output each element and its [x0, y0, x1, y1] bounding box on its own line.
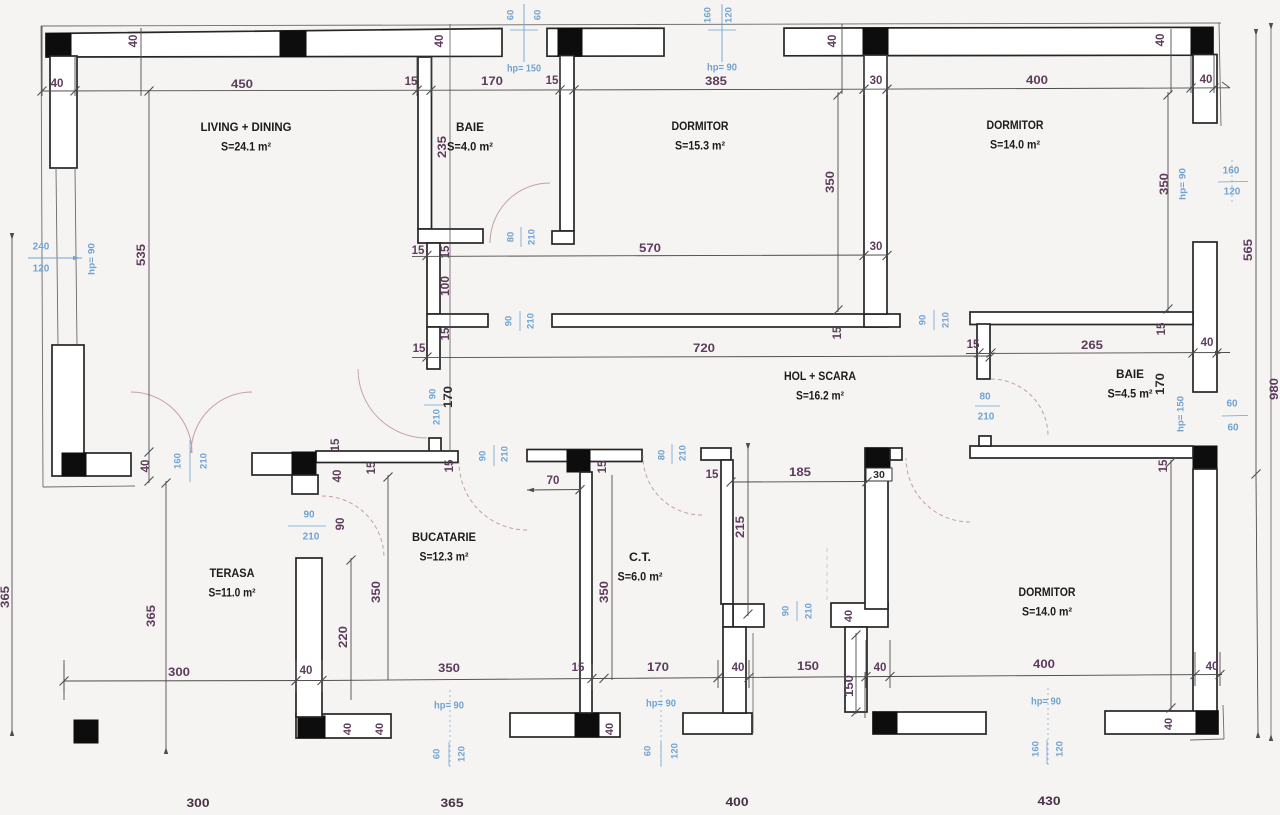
svg-text:15: 15 [967, 339, 980, 351]
dormitor top door dim (90/210) [933, 310, 935, 330]
svg-text:40: 40 [434, 35, 446, 48]
svg-text:80: 80 [506, 232, 517, 243]
svg-text:hp= 150: hp= 150 [507, 64, 541, 75]
svg-text:565: 565 [1243, 238, 1255, 261]
svg-text:365: 365 [441, 796, 464, 810]
baie45 door dim (80/210) [975, 405, 1000, 407]
svg-text:90: 90 [918, 315, 929, 326]
door arc dormitor-b [906, 458, 970, 522]
svg-text:40: 40 [300, 665, 313, 677]
baie45 window dim (60/60 hp150) [1222, 415, 1248, 418]
ct west wall lower [723, 627, 746, 713]
svg-text:15: 15 [413, 343, 426, 355]
door arc kitchen west [322, 496, 384, 558]
svg-text:LIVING + DINING: LIVING + DINING [201, 120, 292, 134]
svg-text:hp= 90: hp= 90 [1178, 168, 1189, 200]
column top wall x570 [558, 28, 582, 56]
svg-text:40: 40 [874, 662, 887, 674]
bottom wall ct piece [683, 713, 752, 734]
svg-text:240: 240 [33, 242, 50, 253]
svg-text:400: 400 [1033, 659, 1055, 671]
svg-text:S=16.2 m²: S=16.2 m² [796, 391, 844, 403]
svg-text:S=24.1 m²: S=24.1 m² [221, 142, 271, 154]
svg-text:DORMITOR: DORMITOR [672, 119, 729, 133]
baie45 west jamb stub [977, 324, 990, 379]
vertical dim 365 right lower [1256, 476, 1258, 733]
svg-text:120: 120 [1055, 741, 1066, 757]
kitchen door dim (90/210) [493, 445, 495, 466]
svg-text:210: 210 [527, 229, 538, 245]
svg-text:S=4.5 m²: S=4.5 m² [1108, 389, 1153, 401]
baie4 east wall south stub [552, 231, 574, 244]
column top-left corner [46, 34, 71, 58]
door arc baie45 [991, 379, 1048, 436]
svg-text:300: 300 [168, 667, 190, 679]
column right wall baie corner [1193, 446, 1217, 469]
svg-text:15: 15 [440, 327, 452, 340]
kitchen east wall [580, 472, 592, 713]
vertical dim 365 left outer [11, 238, 13, 731]
terasa kitchen door dim (90/210) [288, 525, 326, 527]
svg-text:40: 40 [342, 723, 354, 735]
ct west wall jog band [733, 604, 764, 627]
svg-text:40: 40 [732, 662, 745, 674]
svg-text:170: 170 [1155, 373, 1167, 395]
building outline contour bottom-right corner [1190, 739, 1224, 740]
vertical dim 980 far right [1270, 28, 1272, 736]
svg-text:HOL + SCARA: HOL + SCARA [784, 369, 856, 383]
svg-text:210: 210 [804, 603, 815, 619]
building outline contour left-bottom [43, 486, 135, 487]
svg-text:hp= 90: hp= 90 [1031, 697, 1061, 708]
exterior left wall upper segment [50, 56, 77, 168]
svg-text:15: 15 [330, 438, 342, 451]
svg-text:120: 120 [457, 746, 468, 762]
column top wall x290 [280, 31, 306, 57]
svg-text:570: 570 [639, 243, 661, 255]
svg-text:450: 450 [231, 79, 253, 91]
living east wall lower piece [427, 327, 440, 369]
svg-text:350: 350 [1159, 173, 1171, 195]
svg-text:40: 40 [843, 610, 855, 622]
svg-text:365: 365 [146, 604, 158, 627]
svg-text:90: 90 [335, 518, 347, 531]
door arc terasa french right [191, 392, 252, 453]
svg-text:DORMITOR: DORMITOR [987, 118, 1044, 132]
bottom wall kitchen piece [510, 713, 620, 737]
svg-text:30: 30 [873, 469, 885, 481]
svg-text:150: 150 [797, 661, 819, 673]
bottom wall right piece [1105, 711, 1218, 734]
vertical dim 350 dormitor right [1167, 92, 1169, 311]
svg-text:210: 210 [432, 409, 443, 425]
svg-text:hp= 90: hp= 90 [434, 701, 464, 712]
vertical dim 350 dormitor-b [1170, 460, 1172, 710]
dormitor-b north wall jamb notch [979, 436, 991, 446]
svg-text:215: 215 [735, 515, 747, 538]
svg-text:60: 60 [506, 10, 517, 21]
svg-text:980: 980 [1269, 378, 1280, 400]
svg-text:15: 15 [366, 461, 378, 474]
svg-text:BUCATARIE: BUCATARIE [412, 530, 476, 544]
bottom wall entrance-dormitor piece [873, 712, 986, 734]
vertical dim 565 right [1255, 34, 1257, 476]
door arc terasa french left [131, 392, 192, 453]
hall east wall white stub [890, 448, 902, 460]
svg-text:90: 90 [428, 389, 439, 400]
svg-text:15: 15 [706, 469, 719, 481]
svg-text:160: 160 [1031, 741, 1042, 757]
svg-text:80: 80 [979, 392, 991, 403]
exterior left wall bottom stub east [84, 453, 131, 476]
svg-text:40: 40 [51, 78, 64, 90]
svg-text:120: 120 [670, 743, 681, 759]
svg-text:40: 40 [827, 35, 839, 48]
svg-text:90: 90 [303, 510, 315, 521]
top dim extension verticals [140, 28, 142, 96]
svg-text:40: 40 [1155, 34, 1167, 47]
svg-text:15: 15 [440, 245, 452, 258]
living east door dim (90/210) [424, 404, 444, 406]
window dim left living (240/120 hp90) [28, 257, 82, 259]
bottom wall terasa piece [296, 714, 391, 738]
svg-text:40: 40 [332, 470, 344, 483]
svg-text:210: 210 [199, 453, 210, 469]
corridor south wall west stub [427, 314, 488, 327]
ct door dim (80/210) [671, 444, 673, 464]
kitchen north wall east piece [527, 450, 642, 462]
svg-text:385: 385 [705, 76, 728, 88]
dim 70 line [527, 489, 580, 492]
building outline contour right top [1219, 23, 1221, 126]
exterior right wall segment below corner [1193, 55, 1217, 124]
svg-text:15: 15 [597, 460, 609, 473]
svg-text:15: 15 [1156, 322, 1168, 335]
column bottom terasa wall [298, 716, 325, 738]
svg-text:160: 160 [173, 453, 184, 469]
kitchen north wall [316, 451, 458, 463]
vertical dim 150 hall east [855, 633, 857, 714]
svg-text:30: 30 [870, 241, 883, 253]
baie4 south wall with door jamb [418, 229, 483, 243]
svg-text:S=15.3 m²: S=15.3 m² [675, 141, 725, 153]
dim 185 line [731, 481, 867, 484]
svg-text:15: 15 [444, 459, 456, 472]
building outline contour left [41, 26, 43, 487]
hall east wall lower piece [845, 627, 867, 712]
svg-text:210: 210 [678, 445, 689, 461]
svg-text:S=4.0 m²: S=4.0 m² [447, 142, 493, 154]
door arc baie4 [490, 183, 550, 243]
svg-text:40: 40 [374, 723, 386, 735]
svg-text:90: 90 [781, 606, 792, 617]
svg-text:40: 40 [604, 723, 616, 735]
baie4 east wall (dormitor west) [560, 56, 574, 232]
wall dormitor divider 30cm [864, 55, 887, 314]
svg-text:hp= 90: hp= 90 [87, 243, 98, 275]
ct west wall upper [721, 460, 733, 604]
svg-text:90: 90 [478, 451, 489, 462]
svg-text:40: 40 [128, 35, 140, 48]
svg-text:hp= 150: hp= 150 [1176, 396, 1187, 432]
entrance door dim (90/210) [796, 601, 798, 621]
vertical dim 215 [747, 448, 749, 616]
svg-text:210: 210 [978, 412, 995, 423]
svg-text:15: 15 [1158, 459, 1170, 472]
svg-text:535: 535 [136, 243, 148, 266]
dormitor-b north wall [970, 446, 1193, 458]
svg-text:150: 150 [844, 675, 856, 697]
svg-text:210: 210 [303, 532, 320, 543]
vertical dim 350 kitchen east [611, 475, 613, 680]
column kitchen north-east [567, 450, 590, 472]
dim 570 line [412, 255, 887, 256]
column top wall x875 [863, 28, 888, 56]
window dim top baie (60/60 hp150) [523, 4, 525, 62]
corridor door dim (90/210) [519, 311, 521, 331]
dormitor-b window dim (160/120 hp90) [1047, 688, 1049, 766]
svg-text:15: 15 [572, 662, 585, 674]
ct west wall joint piece [723, 604, 733, 627]
column terasa south-west isolated [74, 720, 98, 743]
hall east 30cm wall [865, 448, 888, 609]
svg-text:40: 40 [1200, 74, 1213, 86]
svg-text:80: 80 [657, 450, 668, 461]
vertical dim 350 dormitor west [837, 92, 839, 312]
svg-text:100: 100 [440, 276, 452, 296]
svg-text:170: 170 [647, 662, 669, 674]
svg-text:60: 60 [1227, 423, 1239, 434]
svg-text:TERASA: TERASA [210, 566, 255, 580]
baie45 north wall [970, 312, 1193, 325]
svg-text:40: 40 [140, 460, 152, 473]
bottom dim extension verticals [63, 665, 65, 692]
window dim top dormitor (160/120 hp90) [721, 4, 723, 62]
corridor south wall east end stub [864, 314, 900, 327]
living east wall door jamb stub [429, 438, 441, 452]
exterior top wall segment B (baie window to dormitor) [547, 28, 664, 56]
top dimension line [42, 89, 446, 92]
kitchen west wall upper step [292, 475, 318, 494]
column top-right corner [1191, 27, 1213, 55]
column bottom entrance [873, 712, 897, 734]
svg-text:120: 120 [724, 7, 735, 23]
svg-text:210: 210 [500, 446, 511, 462]
corridor south wall long piece [552, 314, 888, 327]
dim line baie45 row [966, 353, 1230, 354]
svg-text:300: 300 [187, 796, 210, 810]
vertical dim 220 terasa wall [350, 558, 352, 700]
svg-text:70: 70 [547, 475, 560, 487]
door arc living east [358, 369, 427, 438]
svg-text:400: 400 [1026, 75, 1048, 87]
svg-text:S=12.3 m²: S=12.3 m² [420, 552, 469, 564]
svg-text:430: 430 [1038, 794, 1061, 808]
column bottom kitchen wall [575, 713, 599, 737]
svg-text:S=6.0 m²: S=6.0 m² [618, 572, 663, 584]
corridor west wall [427, 243, 440, 314]
exterior right wall lower segment [1193, 469, 1217, 712]
exterior left wall lower segment [52, 345, 84, 476]
svg-text:365: 365 [0, 585, 12, 608]
exterior top wall segment A (living) [46, 29, 502, 58]
kitchen window dim (60/120 hp90) [449, 690, 451, 768]
svg-text:30: 30 [870, 75, 883, 87]
svg-text:40: 40 [1206, 661, 1219, 673]
kitchen north wall west piece [252, 453, 294, 475]
svg-text:15: 15 [405, 76, 418, 88]
vertical dim 350 kitchen west [387, 475, 389, 680]
svg-text:15: 15 [832, 326, 844, 339]
svg-text:210: 210 [941, 312, 952, 328]
door arc kitchen north [459, 462, 527, 530]
svg-text:350: 350 [371, 581, 383, 603]
kitchen west wall (terasa east) [296, 558, 322, 717]
svg-text:120: 120 [33, 264, 50, 275]
terasa french door dim (160/210) [189, 440, 191, 482]
ct window dim (60/120 hp90) [660, 690, 662, 768]
svg-text:S=11.0 m²: S=11.0 m² [209, 588, 256, 600]
svg-text:15: 15 [546, 75, 559, 87]
svg-text:60: 60 [533, 10, 544, 21]
svg-text:hp= 90: hp= 90 [646, 699, 676, 710]
svg-text:720: 720 [693, 343, 715, 355]
exterior right wall middle segment [1193, 242, 1217, 392]
svg-text:BAIE: BAIE [456, 120, 484, 134]
svg-text:210: 210 [526, 313, 537, 329]
svg-text:S=14.0 m²: S=14.0 m² [1022, 607, 1072, 619]
svg-text:160: 160 [1223, 166, 1240, 177]
svg-text:170: 170 [481, 76, 503, 88]
hall east wall jog band [831, 603, 888, 627]
svg-text:60: 60 [432, 749, 443, 760]
svg-text:170: 170 [443, 386, 455, 408]
svg-text:hp= 90: hp= 90 [707, 63, 737, 74]
column left wall bottom corner [62, 453, 86, 476]
svg-text:60: 60 [643, 746, 654, 757]
svg-text:220: 220 [338, 626, 350, 648]
svg-text:15: 15 [412, 245, 425, 257]
white patch 30 label on hall wall [866, 468, 892, 481]
svg-text:185: 185 [789, 467, 812, 479]
svg-text:400: 400 [726, 795, 749, 809]
dim 720 line [412, 356, 990, 358]
building outline contour top [41, 23, 1221, 26]
window left wall line outer [56, 168, 58, 345]
ct wall dim ext line [752, 633, 754, 733]
svg-text:160: 160 [703, 7, 714, 23]
bottom dim line row [64, 680, 320, 683]
exterior top wall segment C (dormitor right) [784, 27, 1213, 56]
dormitor right window dim (160/120 hp90) [1218, 181, 1248, 184]
stair dashes hall [826, 548, 828, 604]
svg-text:C.T.: C.T. [629, 550, 651, 564]
baie4 door dim (80/210) [520, 227, 522, 247]
column bottom-right corner [1196, 711, 1218, 734]
column kitchen north-west [292, 452, 316, 475]
ct north-east wall stub [701, 448, 731, 460]
svg-text:BAIE: BAIE [1116, 367, 1144, 381]
svg-text:265: 265 [1081, 340, 1104, 352]
door arc ct [643, 456, 702, 515]
window left wall line inner [75, 168, 77, 345]
vertical dim 365 terasa [165, 481, 167, 749]
vertical dim 535 [148, 90, 150, 483]
baie4 west wall [418, 57, 432, 229]
svg-text:350: 350 [825, 171, 837, 193]
svg-text:90: 90 [504, 316, 515, 327]
svg-text:120: 120 [1224, 187, 1241, 198]
svg-text:350: 350 [438, 663, 460, 675]
svg-text:350: 350 [599, 581, 611, 603]
svg-text:60: 60 [1226, 399, 1238, 410]
svg-text:40: 40 [1201, 337, 1214, 349]
svg-text:S=14.0 m²: S=14.0 m² [990, 140, 1040, 152]
svg-text:40: 40 [1163, 718, 1175, 730]
svg-text:DORMITOR: DORMITOR [1019, 585, 1076, 599]
column hall east wall top [866, 448, 890, 471]
